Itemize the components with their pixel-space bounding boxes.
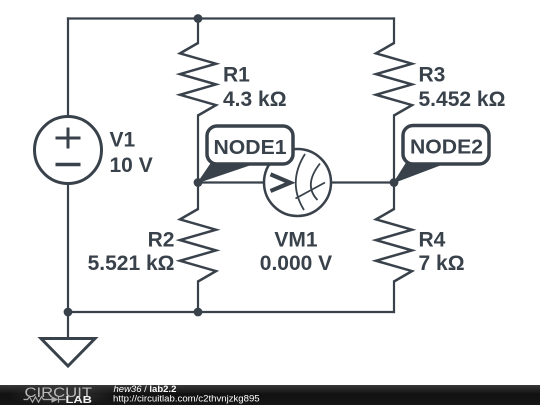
svg-text:5.452 kΩ: 5.452 kΩ [419, 88, 506, 111]
node NODE2 callout pointer [394, 164, 444, 183]
svg-text:R4: R4 [419, 228, 446, 251]
wire R1 bottom lead [197, 116, 199, 183]
wire R2 bottom lead [197, 282, 199, 313]
svg-text:R2: R2 [148, 228, 175, 251]
wire R1 top lead [197, 19, 199, 44]
svg-text:NODE2: NODE2 [410, 137, 483, 159]
svg-text:LAB: LAB [66, 395, 93, 405]
wire ground lead [67, 312, 69, 339]
resistor R1 [180, 43, 216, 116]
node B (NODE2 junction dot) [390, 178, 399, 187]
wire middle right segment [331, 181, 394, 183]
svg-text:5.521 kΩ: 5.521 kΩ [88, 252, 175, 275]
wire R3 bottom lead [393, 116, 395, 183]
svg-text:VM1: VM1 [274, 228, 318, 251]
svg-text:V1: V1 [110, 129, 136, 152]
footer logo schematic squiggle [24, 396, 66, 402]
wire R4 top lead [393, 183, 395, 210]
ground [41, 339, 95, 367]
wire right rail upper lead [393, 19, 395, 44]
wire left rail lower [67, 184, 69, 313]
svg-text:http://circuitlab.com/c2thvnjz: http://circuitlab.com/c2thvnjzkg895 [113, 393, 260, 404]
svg-text:7 kΩ: 7 kΩ [419, 252, 465, 275]
svg-text:0.000 V: 0.000 V [260, 252, 332, 275]
footer logo diode [52, 396, 59, 402]
wire left rail upper [67, 19, 69, 117]
node NODE2 callout box [403, 126, 489, 165]
node junction dot top [194, 14, 203, 23]
svg-text:10 V: 10 V [110, 154, 153, 177]
svg-text:NODE1: NODE1 [214, 137, 287, 159]
resistor R2 [180, 209, 216, 282]
node junction dot bottom middle [194, 308, 203, 317]
wire R4 bottom lead [393, 282, 395, 313]
wire top rail [68, 17, 394, 19]
resistor R4 [376, 209, 412, 282]
voltage source V1 [35, 117, 102, 184]
wire bottom rail [68, 311, 394, 313]
node junction dot bottom left [64, 308, 73, 317]
node A (NODE1 junction dot) [194, 178, 203, 187]
svg-text:R1: R1 [223, 64, 250, 87]
svg-text:4.3 kΩ: 4.3 kΩ [223, 88, 287, 111]
node NODE1 callout box [207, 126, 293, 164]
node NODE1 callout pointer [198, 164, 254, 183]
resistor R3 [376, 43, 412, 116]
wire R2 top lead [197, 183, 199, 210]
footer bar [0, 384, 540, 405]
svg-text:R3: R3 [419, 64, 446, 87]
voltmeter VM1 [264, 149, 331, 216]
wire middle left segment [198, 181, 264, 183]
